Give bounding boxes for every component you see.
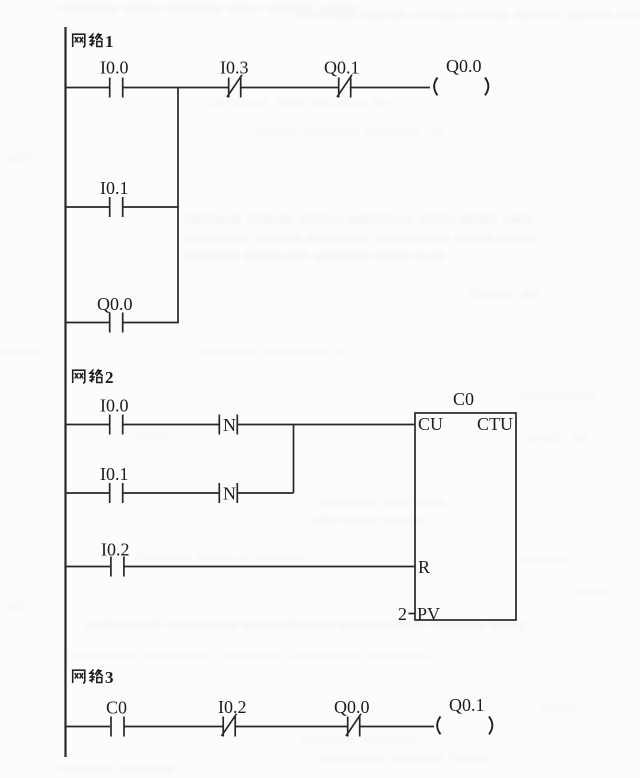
label network3 xyxy=(72,668,114,687)
svg-text:I0.1: I0.1 xyxy=(100,464,129,484)
wire rung3 right segment xyxy=(123,322,179,324)
svg-text:3: 3 xyxy=(105,668,114,687)
svg-text:C0: C0 xyxy=(453,389,474,409)
contact Q0.0 (N1 branch) xyxy=(110,313,123,333)
contact I0.2 (N2) xyxy=(111,557,124,577)
svg-text:C0: C0 xyxy=(106,698,127,718)
wire N2 rung2 right segment xyxy=(237,492,293,494)
svg-text:Q0.0: Q0.0 xyxy=(446,56,482,76)
wire N2 rung2 mid segment xyxy=(123,492,219,494)
label network1 xyxy=(72,32,114,51)
wire rung1 right segment xyxy=(351,87,430,89)
wire N3 rung left segment xyxy=(66,726,111,728)
wire rung1 left segment xyxy=(66,87,110,89)
svg-text:Q0.1: Q0.1 xyxy=(449,695,485,715)
svg-text:CTU: CTU xyxy=(477,414,513,434)
label network2 xyxy=(72,368,114,387)
wire rung1 segment xyxy=(241,87,338,89)
svg-text:Q0.0: Q0.0 xyxy=(334,697,370,717)
coil Q0.0 xyxy=(434,78,488,96)
svg-text:I0.1: I0.1 xyxy=(100,178,129,198)
coil Q0.1 xyxy=(437,717,492,735)
contact I0.0 xyxy=(110,78,123,98)
svg-text:PV: PV xyxy=(417,604,440,624)
left power rail xyxy=(64,27,66,757)
contact I0.3 (NC) xyxy=(227,75,242,98)
contact I0.2 (NC, N3) xyxy=(222,714,237,737)
contact Q0.1 (NC) xyxy=(337,75,352,98)
contact Q0.0 (NC, N3) xyxy=(346,714,361,737)
svg-text:I0.0: I0.0 xyxy=(100,396,129,416)
wire N3 rung seg2 xyxy=(124,726,223,728)
svg-text:Q0.1: Q0.1 xyxy=(324,58,360,78)
wire N2 rung1 mid segment xyxy=(123,424,219,426)
wire rung3 left segment xyxy=(66,322,110,324)
contact N (edge) rung1 xyxy=(219,415,237,435)
svg-text:2: 2 xyxy=(105,368,114,387)
contact I0.0 (N2) xyxy=(110,415,123,435)
contact I0.1 xyxy=(110,197,123,217)
svg-text:N: N xyxy=(223,415,236,435)
svg-text:I0.2: I0.2 xyxy=(101,540,130,560)
contact C0 xyxy=(111,717,124,737)
svg-text:I0.0: I0.0 xyxy=(100,58,129,78)
wire N2 rung1 right segment to counter xyxy=(237,424,415,426)
wire junction vertical N2 xyxy=(293,425,295,494)
contact I0.1 (N2) xyxy=(110,483,123,503)
wire N2 rung2 left segment xyxy=(66,492,110,494)
wire N2 rung1 left segment xyxy=(66,424,110,426)
wire N3 rung right segment xyxy=(360,726,434,728)
svg-text:R: R xyxy=(418,557,430,577)
wire N3 rung seg3 xyxy=(235,726,347,728)
svg-text:1: 1 xyxy=(105,32,114,51)
wire rung1 mid segment xyxy=(123,87,228,89)
svg-text:I0.2: I0.2 xyxy=(218,697,247,717)
wire N2 rung3 right segment to R xyxy=(124,566,415,568)
wire rung2 left segment xyxy=(66,206,110,208)
svg-text:2: 2 xyxy=(398,604,407,624)
wire PV stub xyxy=(409,613,416,615)
svg-text:Q0.0: Q0.0 xyxy=(97,294,133,314)
svg-text:I0.3: I0.3 xyxy=(220,58,249,78)
svg-text:N: N xyxy=(223,484,236,504)
wire rung2 right segment xyxy=(123,206,179,208)
counter C0 box xyxy=(415,413,516,620)
contact N (edge) rung2 xyxy=(219,483,237,503)
bleed-through smudges xyxy=(58,0,359,15)
wire N2 rung3 left segment xyxy=(66,566,111,568)
svg-text:CU: CU xyxy=(418,414,443,434)
wire branch vertical N1 xyxy=(177,88,179,323)
